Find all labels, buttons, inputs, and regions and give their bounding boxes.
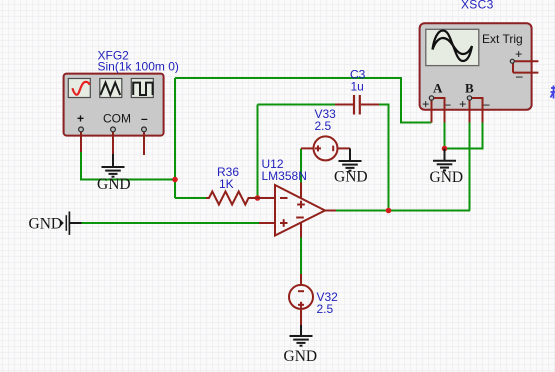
oscilloscope XSC3 [420,0,539,123]
scope body [420,23,532,110]
plus input sign [280,222,288,224]
wire C3 left branch [257,105,259,199]
svg-text:GND: GND [284,348,318,365]
junction dots [172,146,447,214]
power pins [300,183,302,199]
wire A- to gnd junction [444,123,446,149]
svg-text:+: + [515,47,522,62]
svg-text:Sin(1k 100m 0): Sin(1k 100m 0) [98,60,179,74]
pin circles [79,127,147,132]
output stub [325,210,336,212]
wire [81,152,175,180]
svg-text:2.5: 2.5 [315,119,332,133]
capacitor C3 [335,68,379,115]
node junction D1 [172,177,178,183]
scope screen sines [433,31,473,62]
pin stub minus [143,129,145,155]
wire net XFG+ top horizontal to scope [81,78,483,274]
wire B+ vertical [469,123,471,211]
wire [175,197,206,199]
node junction D3 [386,208,392,214]
wire [258,104,337,106]
ground right of V33 [334,148,368,185]
svg-text:GND: GND [97,176,131,193]
pin A [429,96,433,100]
svg-text:GND: GND [29,216,63,233]
svg-text:2.5: 2.5 [317,302,334,316]
svg-text:+: + [422,97,429,112]
svg-text:1K: 1K [219,177,234,191]
svg-text:+: + [459,97,466,112]
svg-text:+: + [77,112,84,126]
ext trig wires [513,61,538,72]
svg-text:Ext Trig: Ext Trig [482,32,523,46]
partial blue character right edge [551,86,555,99]
scope screen [426,29,479,65]
XFG2 body [64,74,164,136]
voltage source V33 [301,136,350,160]
ground below XFG2 COM [97,154,131,193]
ground below V32 [284,325,318,365]
wire V33 to op-amp V+ [300,149,302,183]
wire output node [333,210,470,212]
wire op-amp V- to V32 [300,238,302,275]
waveform buttons [68,79,153,98]
svg-text:–: – [141,112,148,126]
function generator XFG2 [64,49,179,156]
svg-text:LM358N: LM358N [262,169,307,183]
triangle icon [100,83,120,95]
voltage source V32 [289,274,313,327]
square icon [133,83,152,95]
A channel pin wires [432,98,483,123]
wire [174,78,176,198]
power minus sign [296,217,304,219]
pin stub COM [112,129,114,154]
pin stub + [80,129,82,152]
sine icon [72,82,89,95]
minus input sign [280,197,288,199]
op-amp U12 LM358N [258,183,337,238]
input stubs [258,197,276,199]
net connector GND left [29,212,82,235]
wire left GND rail to op-amp + input [82,222,260,224]
svg-text:B: B [465,81,474,96]
svg-text:GND: GND [334,169,368,186]
svg-text:GND: GND [430,169,464,186]
wire [175,78,432,123]
svg-text:A: A [433,81,443,96]
power plus sign [297,204,305,206]
resistor R36 [206,165,258,205]
wire B- to gnd junction [445,123,483,149]
pin B [467,96,471,100]
svg-text:–: – [515,68,523,83]
svg-text:1u: 1u [351,80,364,94]
wire [378,105,389,211]
svg-text:XSC3: XSC3 [461,0,494,12]
ext trig pin [510,59,514,63]
node junction D4 scope gnd [442,146,448,152]
ground below scope [430,149,464,186]
node junction D2 [255,195,261,201]
svg-text:COM: COM [103,112,131,126]
